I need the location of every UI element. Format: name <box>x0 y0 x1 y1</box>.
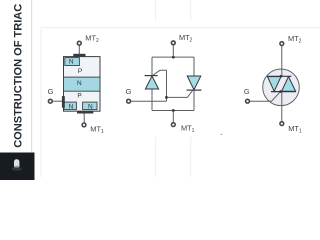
MT2 bar (top) <box>267 75 292 77</box>
N layer (middle, full width) <box>64 77 101 91</box>
wire MT1 lead (construction) <box>83 114 85 123</box>
bottom electrode bar (MT1 contact) <box>77 111 93 114</box>
svg-text:N: N <box>69 103 74 110</box>
wire MT1 lead (symbol) <box>281 92 283 122</box>
wire gate lead (symbol) <box>250 100 272 102</box>
MT1 bar (bottom) <box>271 91 296 93</box>
svg-text:N: N <box>77 80 82 87</box>
terminal MT1 (construction) <box>82 123 86 127</box>
symbol enclosure circle <box>263 69 300 106</box>
node MT1 junction (equivalent) <box>172 109 175 112</box>
wire right branch upper segment <box>193 57 195 76</box>
stray mark <box>221 134 223 135</box>
svg-text:P: P <box>78 68 82 75</box>
wire gate from T1 cathode (curve up-right) <box>153 70 167 75</box>
wire MT2 lead (symbol) <box>281 46 283 76</box>
terminal G (construction) <box>48 99 52 103</box>
wire left branch upper segment <box>151 57 153 76</box>
terminal MT2 (symbol) <box>280 42 284 46</box>
faint table grid (decorative) <box>41 0 320 177</box>
wire gate diagonal (symbol) <box>272 92 281 101</box>
wire top rail <box>152 56 194 58</box>
node gate junction <box>165 96 168 99</box>
SCR T2 triangle (right, pointing down) <box>187 76 201 90</box>
terminal MT2 (construction) <box>77 41 81 45</box>
svg-text:G: G <box>244 87 250 96</box>
wire G lead (construction) <box>52 100 62 102</box>
SCR T2 cathode bar (right, bottom) <box>187 89 202 91</box>
N layer (top-left, under MT2 electrode) <box>65 58 80 66</box>
top electrode bar (MT2 contact) <box>73 54 85 57</box>
N region (bottom-left, beside gate) <box>64 102 77 110</box>
node MT2 junction (equivalent) <box>172 56 175 59</box>
wire MT2 lead (equivalent) <box>172 45 174 57</box>
svg-text:N: N <box>88 103 93 110</box>
semiconductor body outline (P material) <box>64 57 101 112</box>
svg-text:N: N <box>69 59 74 66</box>
terminal MT1 (symbol) <box>280 122 284 126</box>
terminal G (equivalent) <box>127 99 131 103</box>
wire gate vertical <box>166 70 168 101</box>
gate electrode bar (construction) <box>62 96 65 108</box>
terminal G (symbol) <box>246 99 250 103</box>
terminal MT2 (equivalent) <box>171 41 175 45</box>
SCR T1 cathode bar (left, top) <box>145 75 158 77</box>
svg-text:G: G <box>126 87 132 96</box>
triac triangle lower-right (pointing up) <box>282 77 296 92</box>
svg-text:P: P <box>77 93 81 100</box>
triac triangle upper-left (pointing down) <box>268 77 282 92</box>
terminal MT1 (equivalent) <box>171 123 175 127</box>
logo emblem <box>12 159 22 171</box>
wire bottom rail <box>152 110 194 112</box>
N region (bottom-right) <box>83 102 97 110</box>
wire MT2 lead (construction) <box>78 46 80 54</box>
wire left branch lower segment <box>151 89 153 111</box>
svg-text:CONSTRUCTION OF TRIAC: CONSTRUCTION OF TRIAC <box>12 4 24 148</box>
svg-text:G: G <box>48 87 54 96</box>
wire gate to T2 cathode <box>167 90 193 97</box>
wire G lead (equivalent) <box>131 100 167 102</box>
node MT1 bar junction <box>279 90 282 93</box>
sidebar divider line <box>31 0 33 153</box>
wire MT1 lead (equivalent) <box>172 111 174 123</box>
logo block <box>0 153 35 181</box>
wire right branch lower segment <box>193 90 195 110</box>
SCR T1 triangle (left, pointing up) <box>145 76 158 89</box>
node MT2 bar junction <box>280 75 283 78</box>
